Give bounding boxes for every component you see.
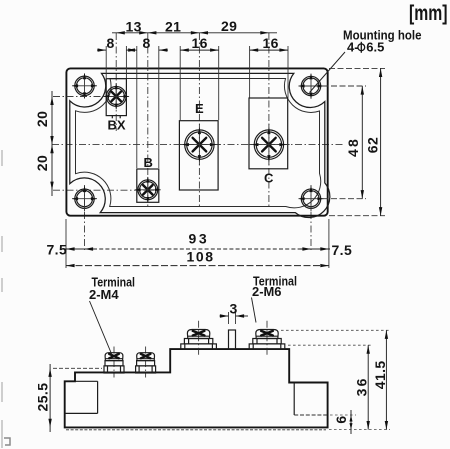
svg-text:21: 21 [165,18,181,34]
svg-text:3: 3 [230,301,238,317]
BX square bottom ticks [111,116,113,119]
svg-text:B: B [144,155,153,170]
M6 screw 1 [181,321,217,356]
terminal B block [137,169,159,202]
label 4-phi6.5 [347,39,384,54]
case step line [76,79,321,208]
centerline BX vertical [115,33,117,131]
svg-text:2-M4: 2-M4 [89,287,119,302]
svg-text:6.5: 6.5 [366,39,384,54]
svg-text:7.5: 7.5 [47,242,68,258]
terminal BX block [106,79,126,116]
dimension 41.5 right [281,330,390,429]
dimension 20/20 left [34,91,107,196]
svg-text:7.5: 7.5 [332,242,353,258]
svg-text:C: C [264,171,274,186]
dimension 108 bottom [66,249,329,268]
svg-text:[mm]: [mm] [409,1,448,25]
terminal seat hidden line [53,367,102,369]
svg-text:25.5: 25.5 [35,383,51,412]
dimension 7.5/93/7.5 bottom [47,219,353,268]
svg-text:41.5: 41.5 [372,360,388,389]
leader mounting hole [310,52,346,93]
baseplate bottom line [66,429,326,431]
svg-text:13: 13 [126,18,142,34]
svg-text:62: 62 [365,137,381,153]
svg-text:8: 8 [143,35,151,51]
leader terminal 2-M6 [252,298,257,323]
svg-text:E: E [195,101,204,116]
dimension 36 right [288,345,372,429]
svg-text:48: 48 [345,137,361,157]
terminal C block [249,98,288,169]
mounting hole bottom-left [72,186,97,212]
svg-text:4-: 4- [347,39,359,54]
svg-text:16: 16 [192,35,208,51]
centerline B vertical [147,33,149,206]
case outline [70,73,330,217]
svg-text:93: 93 [189,231,210,247]
mounting hole top-right [298,73,323,99]
svg-text:20: 20 [34,111,50,127]
svg-text:6: 6 [333,415,349,423]
svg-text:16: 16 [263,35,279,51]
mounting hole bottom-right [298,186,323,212]
M4 screw 2 [136,347,156,378]
right recess [293,383,295,416]
center pin [229,330,236,349]
svg-text:2-M6: 2-M6 [252,284,282,299]
dimension 6 right [330,410,356,434]
centerline bottom-right hole vertical [310,185,312,252]
svg-text:20: 20 [34,155,50,171]
centerline BX horizontal [53,95,128,97]
terminal BX screw [103,83,129,109]
centerline bottom-left hole vertical [84,185,86,252]
mounting hole top-left [72,73,97,99]
svg-text:29: 29 [221,18,237,34]
svg-text:8: 8 [107,35,115,51]
svg-text:BX: BX [108,118,126,133]
terminal E block [179,121,218,190]
scan artifacts left edge [1,150,3,448]
centerline C vertical [268,33,270,207]
centerline B horizontal [53,189,160,191]
dimension row 13/21/29 [112,18,277,35]
dimension row 8/8/16/16 [97,35,288,168]
svg-text:108: 108 [187,249,215,265]
terminal E screw [179,124,220,165]
side body outline [65,349,328,427]
dimension 48 right [323,86,367,199]
M4 screw 1 [104,347,124,378]
terminal B screw [135,177,161,203]
terminal C screw [248,124,289,165]
centerline E vertical [198,33,200,207]
scan artifact bottom-left [4,438,10,445]
leader terminal 2-M4 [90,301,113,355]
dimension 62 right [329,68,385,215]
left recess [65,381,98,413]
M6 screw 2 [249,321,285,356]
flange outline [66,68,327,215]
centerline E/C horizontal [52,144,345,146]
svg-text:36: 36 [353,376,369,396]
dimension 25.5 left [35,364,52,432]
dimension 3 top pin [220,301,249,325]
